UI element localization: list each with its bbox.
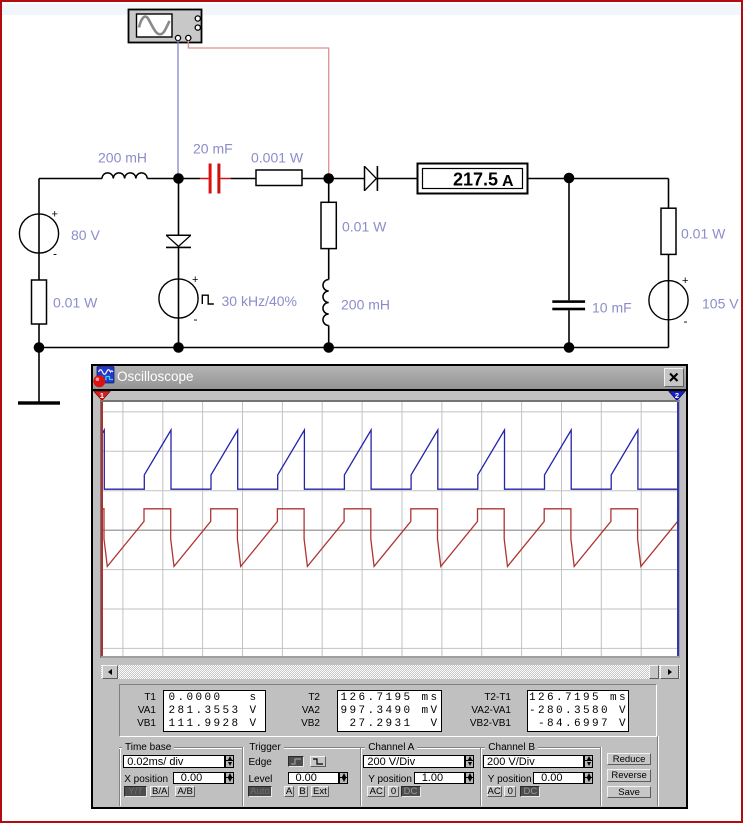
svg-text:-: -: [684, 314, 688, 328]
scrollbar right arrow: [660, 665, 680, 679]
border frame right: [741, 0, 743, 823]
svg-text:0.01 W: 0.01 W: [53, 295, 98, 311]
scrollbar thumb: [649, 665, 660, 679]
close button: [664, 368, 684, 387]
svg-text:+: +: [192, 274, 198, 286]
measurement readout sunken panel: [119, 684, 658, 737]
label R1 value: [53, 295, 98, 311]
time base combo: [123, 755, 225, 769]
inductor L2 200 mH (vertical): [323, 280, 329, 326]
svg-text:10 mF: 10 mF: [592, 300, 632, 316]
svg-text:217.5: 217.5: [453, 170, 498, 190]
resistor R4 0.01 W (right): [661, 208, 676, 254]
scrollbar left arrow: [102, 665, 118, 679]
node D junction: [173, 342, 184, 353]
label C2 value: [592, 300, 632, 316]
channel A coupling buttons: [367, 786, 385, 797]
grid verticals: [123, 402, 641, 656]
save button: [607, 786, 652, 799]
title text: [117, 366, 194, 388]
source V3 105 V: [649, 275, 689, 328]
svg-text:2: 2: [674, 391, 678, 400]
svg-text:0.01 W: 0.01 W: [342, 219, 387, 235]
source V2 30 kHz/40% square: [159, 274, 214, 326]
waveform channel A (red): [102, 509, 678, 567]
reduce button: [607, 753, 652, 766]
wire capacitor to resistor R2: [231, 178, 256, 180]
wire top left: [39, 178, 102, 180]
trigger mode buttons: [248, 786, 273, 797]
border frame left: [0, 0, 2, 823]
T1 labels: [123, 691, 156, 730]
node F junction: [564, 342, 575, 353]
wire scope channel B (red): [188, 41, 328, 175]
label L2 value: [341, 297, 390, 313]
border frame bottom: [0, 821, 743, 823]
channel B y position: [488, 774, 532, 785]
channel A combo: [363, 755, 465, 769]
label L1 value: [98, 150, 147, 166]
svg-text:0.01 W: 0.01 W: [681, 226, 726, 242]
node G junction: [34, 342, 45, 353]
resistor R3 0.01 W (middle): [321, 202, 336, 248]
Y/T B/A A/B buttons: [124, 786, 147, 797]
wire R1 to ground node: [38, 324, 40, 402]
svg-text:-: -: [194, 312, 198, 326]
group top edges: [119, 747, 242, 749]
svg-text:105 V: 105 V: [702, 296, 739, 312]
wire R2 to node B: [302, 178, 365, 180]
inductor L1 200 mH: [102, 173, 147, 179]
T1 readout box: [163, 690, 266, 732]
svg-text:30 kHz/40%: 30 kHz/40%: [222, 293, 297, 309]
wire L2 to bottom: [328, 326, 330, 348]
svg-text:+: +: [682, 275, 688, 287]
label R2 value: [251, 150, 304, 166]
ground symbol: [18, 401, 60, 404]
horizontal scrollbar track: [101, 665, 680, 679]
label V3 value: [702, 296, 739, 312]
channel 2 position line (blue, right edge): [677, 402, 679, 656]
T2-T1 labels: [455, 691, 511, 730]
reverse button: [607, 769, 652, 782]
wire top node A to capacitor: [147, 178, 200, 180]
wire node C down to capacitor C2: [568, 178, 570, 300]
node A junction: [173, 173, 184, 184]
wire diode to ammeter: [377, 178, 417, 180]
T2 readout box: [337, 690, 442, 732]
group separators: [119, 747, 121, 806]
x position control: [124, 774, 168, 785]
diode D2 (horizontal): [365, 166, 378, 191]
svg-text:+: +: [52, 209, 58, 221]
svg-text:0.001 W: 0.001 W: [251, 150, 304, 166]
label V1 value: [71, 227, 100, 243]
resistor R1 0.01 W (left): [32, 280, 47, 324]
capacitor C2 10 mF: [552, 300, 585, 310]
svg-text:1: 1: [100, 391, 104, 400]
channel 1 marker: [93, 391, 113, 401]
wire scope channel A (blue): [177, 41, 179, 175]
wire node B down to R3: [328, 179, 330, 203]
wire R4 to source V3: [668, 254, 670, 347]
source V1 80 V: [19, 209, 58, 261]
svg-text:A: A: [502, 173, 514, 190]
svg-text:80 V: 80 V: [71, 227, 100, 243]
wire ammeter to node C: [528, 178, 669, 180]
wire middle branch diode anode: [178, 179, 180, 236]
title bar separator line: [93, 389, 686, 391]
wire diode D1 to bottom: [178, 247, 180, 347]
channel B combo: [483, 755, 584, 769]
grid horizontals: [102, 412, 678, 649]
T2-T1 readout box: [527, 690, 629, 732]
grid center axis: [102, 529, 678, 531]
plot graticule and waveforms: [102, 402, 678, 656]
trigger edge row: [249, 757, 272, 768]
label R3 value: [342, 219, 387, 235]
wire top right corner down: [668, 179, 670, 209]
channel A y position: [368, 774, 412, 785]
wire C2 to bottom: [568, 310, 570, 347]
resistor R2 0.001 W: [256, 170, 302, 186]
trigger level row: [249, 774, 273, 785]
node C junction: [564, 173, 575, 184]
svg-text:20 mF: 20 mF: [193, 141, 233, 157]
waveform channel B (blue): [102, 430, 678, 489]
label R4 value: [681, 226, 726, 242]
label C1 value: [193, 141, 233, 157]
node B junction: [323, 173, 334, 184]
faint toolbar remnant band: [2, 4, 741, 15]
border frame top: [0, 0, 743, 2]
svg-text:200 mH: 200 mH: [98, 150, 147, 166]
group captions: [122, 743, 174, 753]
svg-text:200 mH: 200 mH: [341, 297, 390, 313]
label V2 value: [222, 293, 297, 309]
ammeter M1 217.5 A: [418, 164, 528, 194]
title bar icon: [93, 366, 116, 388]
oscilloscope window: [91, 364, 688, 809]
T2 labels: [285, 691, 320, 730]
wire R3 to L2: [328, 249, 330, 280]
wire left branch down: [38, 179, 40, 281]
wire bottom rail: [39, 347, 669, 349]
oscilloscope instrument icon XSC1: [129, 10, 202, 43]
node E junction: [323, 342, 334, 353]
svg-text:-: -: [53, 247, 57, 261]
channel 1 position line (red, left edge): [101, 402, 103, 656]
channel 2 marker: [668, 391, 686, 401]
channel B coupling buttons: [487, 786, 502, 797]
title bar: [93, 366, 686, 389]
diode D1 (vertical): [166, 235, 191, 247]
capacitor C1 20 mF (red highlighted): [200, 164, 231, 194]
plot area frame: [100, 400, 680, 658]
